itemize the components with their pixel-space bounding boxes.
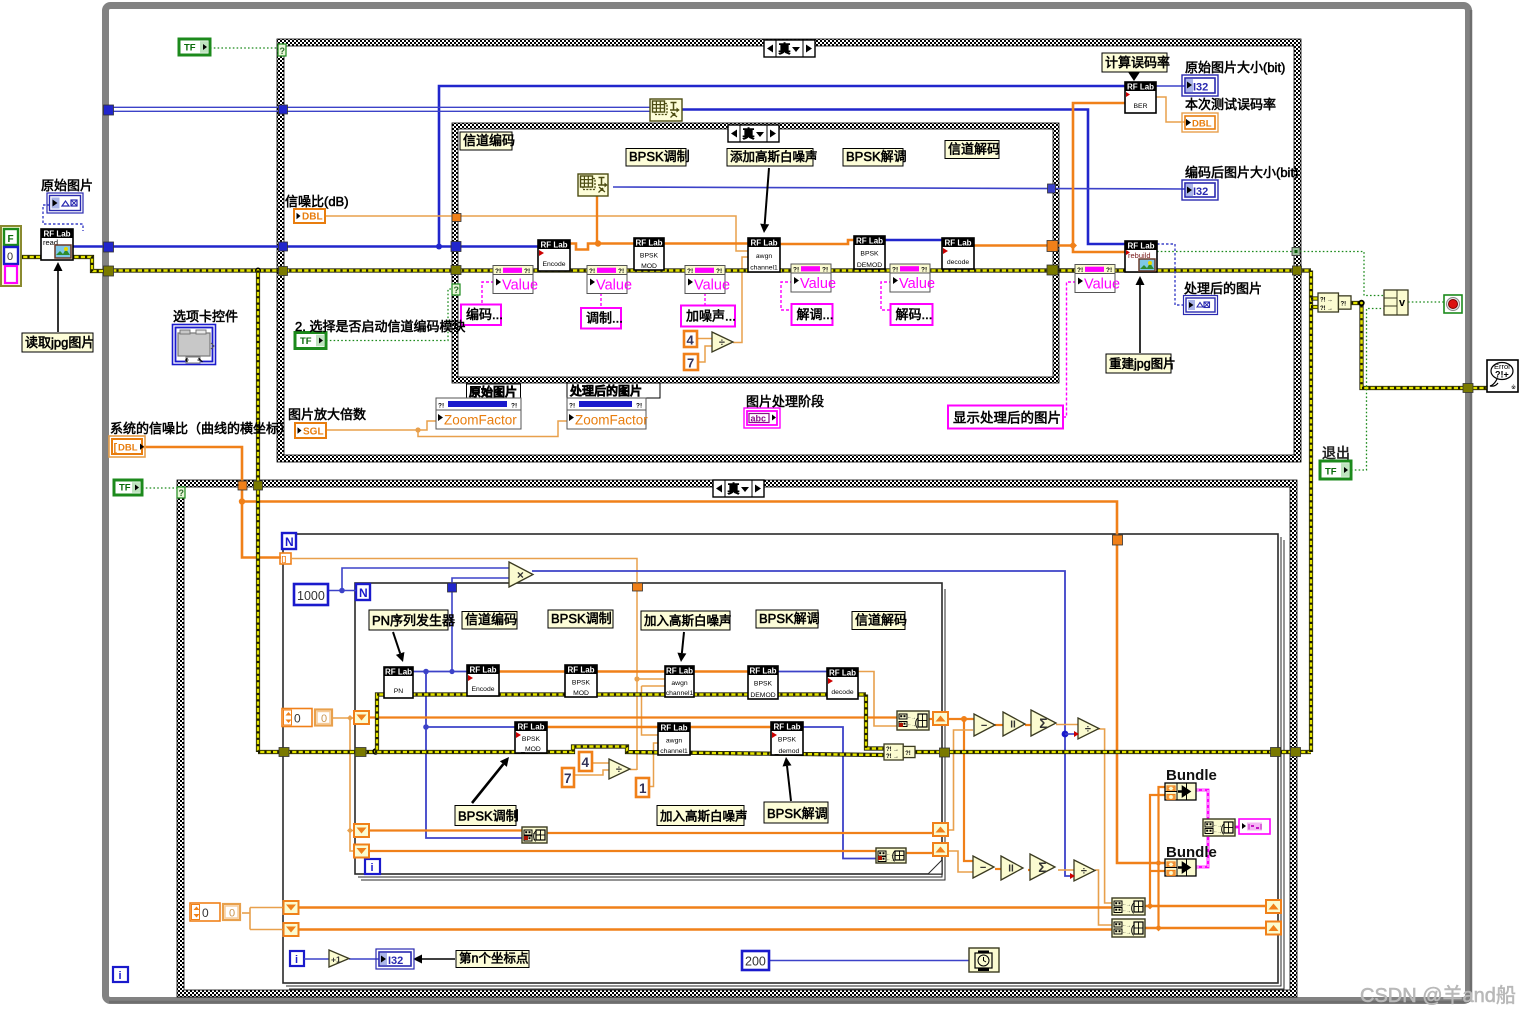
reference wire: display label to Value6: [1063, 282, 1075, 417]
label: add gaussian noise: [727, 149, 813, 167]
tunnel: big case 2D array: [279, 105, 288, 114]
node: build array bottom1: [1112, 898, 1145, 915]
wire: right shift registers to compare chains: [948, 718, 974, 720]
svg-text:RF Lab: RF Lab: [1127, 83, 1154, 92]
svg-text:Σ: Σ: [1038, 859, 1046, 875]
error wire: vertical right of lower case: [1309, 271, 1313, 753]
svg-text:F: F: [8, 234, 14, 245]
svg-text:7: 7: [564, 771, 572, 786]
svg-text:BPSK: BPSK: [522, 736, 541, 743]
svg-text:RF Lab: RF Lab: [856, 237, 883, 246]
cluster wire: to XY graph terminal: [1235, 826, 1240, 829]
boolean wire: TF to top case selector: [210, 47, 277, 49]
op: sum A: [1031, 710, 1056, 736]
label: channel coding: [460, 132, 512, 150]
shift register: inner right 2: [933, 823, 948, 836]
op: equal B: [1001, 856, 1023, 880]
svg-text:?!: ?!: [589, 268, 595, 275]
svg-text:BPSK解调: BPSK解调: [846, 149, 907, 164]
svg-text:信道编码: 信道编码: [463, 133, 515, 148]
svg-text:abc: abc: [751, 414, 767, 424]
label: BPSK modulate row1: [548, 610, 613, 628]
wire: shift register feeds row2 icons: [370, 829, 522, 831]
property node: Value 4: [791, 264, 831, 292]
svg-text:channel1: channel1: [750, 265, 778, 272]
wire: const 1 into awgn2: [649, 743, 658, 787]
shift register: inner right 1: [933, 712, 948, 725]
block: RF Lab read jpg: [41, 229, 73, 260]
svg-text:信道解码: 信道解码: [855, 613, 907, 628]
svg-text:本次测试误码率: 本次测试误码率: [1185, 97, 1276, 112]
boolean wire: TF to lower case selector: [142, 487, 177, 489]
svg-text:awgn: awgn: [756, 253, 772, 260]
label: add noise...: [681, 306, 735, 327]
svg-text:Value: Value: [800, 276, 836, 292]
wire: 2D array double blue to matrix-size icon: [107, 106, 650, 108]
svg-text:真: 真: [779, 41, 791, 56]
tunnel: lower case error right: [1291, 748, 1301, 757]
boolean wire: OR to stop: [1408, 301, 1445, 303]
tunnel: lower case SNR top: [238, 481, 247, 490]
svg-text:N: N: [285, 535, 294, 549]
wire: SNR dB orange into awgn channel: [325, 216, 748, 251]
property node: Value 5: [890, 264, 930, 292]
block: RF Lab decode row1: [827, 668, 858, 699]
wire: SNR element vertical to awgn blocks: [291, 559, 637, 771]
label: BPSK demod: [843, 149, 903, 167]
svg-text:PN: PN: [394, 688, 404, 695]
svg-text:?!: ?!: [618, 268, 624, 275]
svg-text:调制...: 调制...: [586, 311, 623, 326]
svg-text:图片处理阶段: 图片处理阶段: [746, 394, 824, 409]
label: modulate...: [581, 308, 621, 329]
label: decode...: [891, 304, 933, 325]
svg-text:ZoomFactor: ZoomFactor: [444, 413, 517, 428]
svg-text:真: 真: [743, 126, 755, 141]
reference wire: Value4 to label: [781, 282, 793, 310]
svg-text:Encode: Encode: [542, 261, 565, 268]
node: matrix size top: [650, 99, 682, 121]
tunnel: inner case error right: [1047, 265, 1058, 275]
op: multiply: [509, 562, 533, 587]
op: divide B: [1074, 860, 1095, 881]
reference wire: Value1 to label: [482, 282, 494, 304]
svg-text:BPSK调制: BPSK调制: [458, 809, 519, 824]
svg-text:加噪声...: 加噪声...: [686, 309, 736, 324]
op: equal A: [1003, 712, 1025, 736]
op: increment +1: [329, 950, 349, 967]
arrow: row2 demod label: [787, 766, 791, 801]
svg-text:Value: Value: [596, 278, 632, 294]
boolean wire: rebuild status out to OR: [1157, 251, 1292, 253]
indicator: DBL BER result: [1182, 113, 1218, 132]
svg-text:awgn: awgn: [666, 737, 682, 744]
svg-text:1000: 1000: [297, 589, 325, 603]
svg-text:MOD: MOD: [641, 263, 657, 270]
svg-text:−: −: [981, 720, 987, 732]
svg-text:II: II: [1008, 864, 1014, 875]
wire: blue branch to BPSK_MOD row2 and icon: [426, 672, 522, 839]
svg-text:DEMOD: DEMOD: [750, 692, 775, 699]
indicator: cluster array out: [1239, 819, 1270, 834]
control: tab control ref: [173, 325, 216, 365]
svg-text:÷: ÷: [719, 337, 725, 349]
svg-text:RF Lab: RF Lab: [749, 667, 776, 676]
label: compute BER: [1102, 53, 1167, 72]
svg-text:添加高斯白噪声: 添加高斯白噪声: [730, 149, 818, 164]
svg-text:?!: ?!: [1340, 302, 1346, 308]
error wire: merge to error indicator: [1351, 303, 1487, 388]
svg-text:Σ: Σ: [1039, 715, 1047, 731]
label: BPSK demod row2: [764, 802, 828, 823]
svg-text:解码...: 解码...: [896, 307, 933, 322]
wire: i +1 to I32: [304, 958, 329, 960]
svg-text:→: →: [893, 754, 899, 760]
N terminal inner loop: [356, 584, 370, 600]
wire: inner constants to shift registers: [333, 717, 355, 719]
svg-text:处理后的图片: 处理后的图片: [1184, 281, 1262, 296]
wire: blue 1000 to N and multiply: [313, 590, 356, 592]
arrow: nth point label: [422, 958, 455, 960]
svg-text:TF: TF: [119, 483, 131, 494]
node: OR gate: [1384, 290, 1408, 315]
node: build array cluster: [1203, 819, 1235, 836]
svg-text:decode: decode: [831, 689, 854, 696]
svg-text:RF Lab: RF Lab: [1127, 242, 1154, 251]
i terminal inner loop: [365, 859, 380, 874]
property node: Value 1: [493, 266, 533, 294]
label: add noise row1: [641, 611, 730, 630]
svg-text:2. 选择是否启动信道编码模块: 2. 选择是否启动信道编码模块: [295, 319, 465, 334]
indicator: processed image small: [1186, 298, 1215, 312]
svg-text:显示处理后的图片: 显示处理后的图片: [953, 411, 1061, 426]
svg-text:TF: TF: [184, 43, 196, 54]
svg-text:?!: ?!: [1077, 267, 1083, 274]
wire: BER result to DBL: [1156, 97, 1185, 122]
svg-text:channel1: channel1: [660, 748, 688, 755]
error wire: merged out to tunnels: [915, 750, 1311, 754]
svg-text:BPSK解调: BPSK解调: [759, 611, 820, 626]
svg-text:RF Lab: RF Lab: [773, 723, 800, 732]
wire: blue encoded-size to I32: [613, 187, 1185, 189]
constant: 4 row2: [579, 752, 592, 771]
indicator: error out: [1487, 360, 1518, 392]
shift register: inner left 1: [354, 711, 369, 724]
svg-text:v: v: [1399, 297, 1406, 309]
svg-text:?!: ?!: [511, 403, 517, 410]
svg-text:TF: TF: [1325, 467, 1337, 478]
svg-text:原始图片大小(bit): 原始图片大小(bit): [1185, 60, 1285, 75]
svg-text:awgn: awgn: [671, 680, 687, 687]
tunnel: inner loop blue top: [448, 583, 457, 592]
shift register: outer left 1: [284, 901, 299, 914]
control: cluster F/0: [1, 226, 21, 286]
block: RF Lab decode: [942, 238, 974, 269]
node: build array row2: [876, 848, 906, 863]
control: TF curve enable: [114, 480, 142, 495]
label: BPSK modulate row2: [455, 806, 516, 826]
svg-text:DBL: DBL: [1192, 119, 1212, 130]
svg-text:?!: ?!: [524, 268, 530, 275]
control: TF channel coding enable: [295, 333, 326, 349]
wire: orange MOD to awgn: [664, 242, 748, 245]
svg-text:CSDN @羊and船: CSDN @羊and船: [1360, 984, 1516, 1007]
control: DBL array system SNR: [109, 436, 145, 457]
svg-text:4: 4: [687, 333, 695, 348]
wire: SNR array to loop index tunnel: [242, 502, 281, 558]
wire: orange decode out to case tunnel and BER/rebuild: [974, 244, 1073, 247]
svg-text:Value: Value: [1084, 277, 1120, 293]
control: SGL zoom factor: [295, 423, 326, 438]
wire: multiply out long blue: [532, 571, 1074, 876]
tunnel: inner loop error right: [940, 748, 950, 757]
svg-text:÷: ÷: [1085, 723, 1091, 735]
svg-text:Encode: Encode: [471, 686, 494, 693]
svg-text:BPSK: BPSK: [778, 737, 797, 744]
wire: blue DEMOD to decode: [885, 239, 944, 241]
svg-text:第n个坐标点: 第n个坐标点: [459, 952, 528, 966]
arrow: BER label pointer: [1128, 72, 1140, 81]
error wire: cluster to while tunnel: [21, 257, 104, 271]
svg-text:真: 真: [728, 481, 740, 496]
node: build array bottom2: [1112, 919, 1145, 937]
svg-text:i: i: [295, 954, 298, 966]
tunnel: big case error left: [279, 267, 288, 276]
tunnel: while error in: [104, 266, 114, 276]
label: channel decode: [945, 141, 999, 159]
svg-text:+1: +1: [331, 955, 341, 965]
wire: blue up through tunnel to multiply: [451, 583, 453, 672]
block: RF Lab BPSK_MOD row2: [515, 722, 547, 753]
svg-text:DBL: DBL: [302, 212, 323, 223]
svg-text:重建jpg图片: 重建jpg图片: [1109, 356, 1176, 371]
svg-text:4: 4: [582, 755, 590, 770]
wire: build-array outputs to right registers: [1145, 905, 1266, 907]
svg-text:?!: ?!: [822, 267, 828, 274]
svg-text:编码...: 编码...: [466, 307, 503, 322]
arrow: PN label: [393, 632, 400, 653]
svg-text:0: 0: [229, 908, 235, 920]
svg-text:?!: ?!: [569, 403, 575, 410]
svg-text:I32: I32: [1193, 82, 1208, 94]
svg-text:_demod: _demod: [774, 748, 800, 755]
indicator: I32 original size: [1182, 75, 1218, 96]
label: display processed image: [948, 406, 1063, 429]
tunnel: lower case error top: [254, 481, 263, 490]
svg-text:÷: ÷: [1081, 865, 1087, 877]
svg-text:退出: 退出: [1322, 445, 1350, 461]
svg-text:BPSK解调: BPSK解调: [767, 806, 828, 821]
error wire: lower rows: [258, 750, 375, 754]
svg-text:RF Lab: RF Lab: [567, 666, 594, 675]
wire: row1 chain oranges: [499, 670, 565, 672]
block: RF Lab BPSK DEMOD: [854, 236, 885, 269]
svg-text:?!: ?!: [1106, 267, 1112, 274]
shift register: inner left 3: [354, 845, 369, 858]
svg-text:_MOD: _MOD: [520, 746, 541, 753]
svg-text:→: →: [1327, 306, 1333, 312]
svg-text:RF Lab: RF Lab: [385, 668, 412, 677]
op: sum B: [1030, 854, 1055, 880]
block: RF Lab BPSK MOD row1: [565, 665, 597, 697]
property node: Value 6: [1075, 265, 1115, 293]
svg-text:RF Lab: RF Lab: [635, 239, 662, 248]
op: subtract B: [973, 856, 994, 878]
node: merge errors lower: [884, 744, 903, 760]
node: wait ms clock: [969, 948, 999, 972]
tunnel: while 2D array: [104, 105, 114, 115]
svg-text:?!: ?!: [438, 403, 444, 410]
wire: compare chain A: [995, 724, 1003, 726]
svg-text:×: ×: [517, 568, 524, 582]
indicator: I32 encoded size: [1182, 180, 1218, 200]
svg-text:解调...: 解调...: [797, 307, 834, 322]
label: add noise row2: [657, 806, 744, 826]
tunnel: inner case SNR: [452, 214, 461, 222]
svg-text:?: ?: [179, 488, 185, 498]
svg-text:?!: ?!: [892, 267, 898, 274]
tunnel: inner case blue right: [1048, 184, 1056, 193]
svg-text:※: ※: [1511, 384, 1516, 391]
svg-text:MOD: MOD: [573, 690, 589, 697]
error wire: branch down to lower case: [256, 271, 260, 753]
tunnel: inner case error left: [451, 266, 461, 275]
svg-text:?!+: ?!+: [1495, 370, 1509, 380]
svg-text:处理后的图片: 处理后的图片: [569, 383, 642, 398]
svg-text:?!: ?!: [921, 267, 927, 274]
label: demod...: [792, 304, 833, 325]
wire: PN out blue: [413, 671, 467, 673]
error wire: top chain right of inner case: [1059, 268, 1311, 272]
svg-text:II: II: [1010, 720, 1016, 731]
wire: row2 demod blue out: [803, 727, 876, 859]
svg-text:BPSK: BPSK: [572, 679, 591, 686]
op: divide 4/7 top: [712, 332, 733, 352]
svg-text:RF Lab: RF Lab: [666, 667, 693, 676]
shift register: inner left 2: [354, 824, 369, 837]
svg-text:BPSK调制: BPSK调制: [551, 611, 612, 626]
wire: compare chain B: [995, 868, 1001, 870]
indicator: original image: [50, 196, 81, 211]
block: RF Lab PN: [384, 667, 413, 698]
constant: 4 top: [684, 331, 697, 347]
svg-text:Bundle: Bundle: [1166, 767, 1217, 784]
wire: 4/7 ratio divide to awgn: [697, 338, 712, 340]
block: RF Lab BER: [1125, 82, 1156, 113]
N terminal outer loop: [282, 533, 296, 549]
svg-text:BPSK调制: BPSK调制: [629, 149, 690, 164]
property node: ZoomFactor processed: [567, 383, 660, 398]
svg-text:读取jpg图片: 读取jpg图片: [25, 335, 94, 350]
svg-text:−: −: [980, 862, 986, 874]
tunnel: outer loop error left: [279, 748, 289, 757]
arrow: row2 modulate label: [472, 764, 503, 803]
error wire: main top chain: [110, 268, 1101, 272]
svg-text:I32: I32: [388, 955, 403, 967]
cluster wire: Bundle2 to build array: [1196, 836, 1208, 867]
tunnel: outer loop orange top: [1113, 535, 1123, 545]
svg-text:RF Lab: RF Lab: [517, 723, 544, 732]
constant: 7 top: [684, 354, 698, 370]
wire: row1 DEMOD blue to decode: [778, 671, 827, 673]
case structure: BER curve (true case): [177, 480, 1297, 487]
svg-text:信道解码: 信道解码: [948, 142, 1000, 157]
svg-text:?!: ?!: [636, 403, 642, 410]
control: DBL SNR: [294, 209, 325, 223]
svg-text:200: 200: [745, 955, 766, 969]
svg-text:RF Lab: RF Lab: [750, 239, 777, 248]
label: channel coding row1: [462, 612, 517, 630]
svg-text:Value: Value: [899, 276, 935, 292]
shift register: outer right 1: [1266, 900, 1281, 913]
svg-text:信道编码: 信道编码: [465, 612, 517, 627]
shift register: outer right 2: [1266, 922, 1281, 935]
property node: Value 3: [685, 266, 725, 294]
wire: blue matrix icon to rebuild: [682, 110, 1125, 245]
wire: outer constants: [242, 912, 250, 914]
op: divide 4/7 row2: [609, 759, 630, 779]
svg-text:RF Lab: RF Lab: [944, 239, 971, 248]
op: divide A: [1078, 718, 1099, 739]
op: subtract A: [974, 714, 995, 736]
picture wire: original image indicator: [43, 205, 83, 231]
arrow: row1 noise label: [682, 632, 684, 653]
svg-text:编码后图片大小(bit): 编码后图片大小(bit): [1185, 165, 1298, 180]
wire: 200 ms to wait: [768, 960, 969, 962]
svg-text:÷: ÷: [616, 764, 622, 776]
svg-text:1: 1: [639, 781, 647, 796]
svg-text:信噪比(dB): 信噪比(dB): [285, 194, 349, 209]
wire: image data blue from read to Encode: [73, 245, 538, 248]
indicator: I32 nth point: [376, 949, 414, 969]
reference wire: Value2 to label: [600, 293, 602, 308]
wire: blue BER to I32: [1156, 85, 1185, 87]
wire: divide row2 feeds: [592, 762, 609, 764]
label: BPSK modulate: [626, 149, 686, 167]
svg-text:RF Lab: RF Lab: [660, 724, 687, 733]
property node: ZoomFactor original: [467, 384, 521, 399]
svg-text:RF Lab: RF Lab: [540, 241, 567, 250]
svg-text:0: 0: [321, 713, 327, 725]
tunnel: outer loop error right: [1271, 748, 1281, 757]
wire: blue count to multiply lower input: [452, 578, 509, 583]
error wire: row1 branch: [377, 695, 866, 753]
indicator: stop button: [1444, 295, 1462, 313]
case structure: image processing (true case): [277, 39, 1301, 46]
wire: ZoomFactor orange fanout: [326, 421, 436, 430]
svg-text:→: →: [1327, 298, 1333, 304]
boolean wire: quit TF to OR: [1351, 309, 1384, 471]
constant: 0 pair inner loop: [282, 709, 312, 727]
svg-text:?!: ?!: [716, 268, 722, 275]
svg-text:原始图片: 原始图片: [469, 384, 517, 399]
constant: 200: [742, 951, 769, 970]
svg-text:TF: TF: [300, 336, 312, 347]
case structure: channel coding (true case): [452, 123, 1059, 129]
shift register: outer left 2: [284, 923, 299, 936]
property node: Value 2: [587, 266, 627, 294]
wire: orange long feed to Bundles: [242, 490, 1165, 863]
for loop: Monte-Carlo (1000): [355, 583, 942, 874]
svg-text:?!: ?!: [687, 268, 693, 275]
svg-text:decode: decode: [947, 259, 970, 266]
shift register: inner right 3: [933, 843, 948, 856]
wire: outer shift register arrays: [298, 906, 1112, 908]
svg-text:Value: Value: [502, 278, 538, 294]
constant: 1 row2: [636, 778, 649, 797]
svg-text:i: i: [371, 862, 374, 874]
svg-text:[: [: [114, 442, 118, 454]
